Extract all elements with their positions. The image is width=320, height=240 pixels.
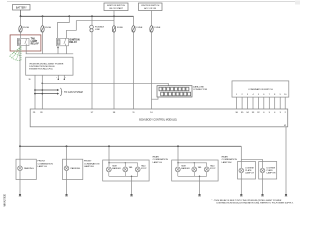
wire BCM ground (285, 127, 287, 194)
ground rear LH (130, 194, 133, 196)
fusible link FL (90, 16, 94, 32)
node bus-fuse2 (42, 15, 44, 17)
wire ign switch2 drop (151, 11, 153, 26)
wire ign switch1 drop (113, 11, 115, 26)
node CAN-L branch (34, 93, 36, 95)
svg-text:LAMP LH: LAMP LH (38, 165, 48, 168)
svg-text:BATTERY: BATTERY (16, 6, 27, 9)
svg-text:REAR: REAR (222, 156, 228, 159)
svg-text:LAMP RH: LAMP RH (84, 165, 94, 168)
wire CAN-H vertical (34, 75, 36, 109)
wire CAN-H arrow (35, 89, 59, 91)
wire bus to ignition relay feed (58, 16, 70, 38)
wire license RH drop (262, 159, 264, 168)
svg-text:ON OR START: ON OR START (109, 7, 124, 10)
wire fuse3 to BCM (113, 31, 115, 109)
node bus-fuse1 (20, 15, 22, 17)
ground rear RH (198, 194, 201, 196)
svg-text:IGNITION SWITCH: IGNITION SWITCH (107, 5, 126, 7)
rear combination lamp LH (103, 146, 169, 194)
ignition switch ON/START box (104, 3, 128, 11)
svg-text:FUSE: FUSE (117, 27, 123, 29)
wire fusible link to BCM (91, 32, 93, 110)
svg-text:COMBINATION: COMBINATION (38, 162, 54, 165)
node CAN-H branch (34, 89, 36, 91)
svg-text:COMBINATION: COMBINATION (84, 162, 100, 165)
svg-text:PARKING: PARKING (24, 167, 34, 170)
svg-text:* : THIS RELAY IS BUILT INTO T: * : THIS RELAY IS BUILT INTO THE IPDM E/… (212, 199, 282, 202)
node lamp bus rear RH (177, 145, 179, 147)
svg-text:CONNECTOR: CONNECTOR (193, 89, 207, 91)
svg-text:TO CAN SYSTEM: TO CAN SYSTEM (64, 91, 83, 94)
node lamp bus front LH (19, 145, 21, 147)
node bus-fusible-link (91, 15, 93, 17)
svg-text:RELAY: RELAY (69, 41, 77, 44)
svg-text:LAMP LH: LAMP LH (153, 161, 163, 164)
ignition relay stub pin (57, 46, 59, 54)
page top border (7, 1, 295, 3)
wire CAN-L arrow (35, 93, 59, 95)
ignition relay (57, 38, 69, 46)
wire DLC lower feed (152, 97, 159, 99)
front combination lamp LH (16, 146, 53, 194)
IPDM E/R label box (26, 54, 73, 75)
svg-text:DISTRIBUTION MODULE: DISTRIBUTION MODULE (29, 66, 55, 68)
svg-text:COMBINATION: COMBINATION (222, 158, 238, 161)
wire fuse2 down to IPDM (42, 31, 44, 54)
svg-text:39: 39 (29, 79, 31, 81)
svg-text:IGNITION SWITCH: IGNITION SWITCH (141, 5, 160, 7)
svg-text:LAMP RH: LAMP RH (222, 161, 232, 164)
wires combination switch to BCM (237, 97, 286, 109)
corner smudge (295, 1, 300, 5)
highlight box (red) around tail lamp relay (10, 35, 41, 51)
fuse F1 (19, 16, 22, 32)
svg-text:IPDM E/R (INTELLIGENT POWER: IPDM E/R (INTELLIGENT POWER (29, 63, 63, 65)
wire fuse4 to BCM (133, 31, 135, 109)
ground license LH (240, 194, 243, 196)
license plate lamp LH (238, 162, 256, 195)
tail lamp relay (17, 38, 29, 45)
node lamp bus rear LH (108, 145, 110, 147)
svg-text:FUSE: FUSE (137, 27, 143, 29)
ignition switch ACC/ON box (139, 3, 163, 11)
svg-text:RELAY*: RELAY* (31, 43, 40, 46)
svg-text:FUSE: FUSE (155, 27, 161, 29)
node bus-ignrelay (68, 15, 70, 17)
svg-text:WKIA2762E: WKIA2762E (4, 194, 7, 207)
wire license LH drop (240, 159, 242, 168)
svg-text:BCM (BODY CONTROL MODULE): BCM (BODY CONTROL MODULE) (139, 118, 177, 121)
wire lamp feed bus (20, 145, 241, 147)
svg-text:LAMP LH: LAMP LH (245, 171, 254, 174)
node lamp bus front RH (66, 145, 68, 147)
BCM body control module (30, 109, 288, 127)
wire battery drop (20, 10, 22, 16)
wire CAN-L vertical (41, 75, 43, 109)
svg-text:PARKING: PARKING (71, 167, 81, 170)
data link connector DLC (157, 85, 207, 97)
combination switch (232, 81, 289, 97)
svg-text:ACC OR ON: ACC OR ON (144, 7, 156, 10)
wire bus corner to fuse4 (133, 16, 135, 25)
wire fuse1 to relay (20, 31, 22, 38)
svg-text:DISTRIBUTION MODULE ENGINE ROO: DISTRIBUTION MODULE ENGINE ROOM). REFER … (217, 203, 294, 205)
svg-text:COMBINATION: COMBINATION (153, 158, 169, 161)
svg-text:MARKER: MARKER (112, 167, 121, 170)
wire relay coil pin to IPDM (25, 46, 27, 54)
svg-text:COMBINATION SWITCH: COMBINATION SWITCH (248, 88, 273, 91)
ground BCM (285, 194, 288, 196)
ground front RH (65, 194, 68, 196)
svg-text:REAR: REAR (153, 156, 159, 159)
svg-text:LINK: LINK (95, 29, 100, 31)
green view cone (10, 47, 22, 61)
svg-text:STOP: STOP (141, 168, 147, 170)
wire relay output to lamp bus (long left vertical) (19, 46, 21, 147)
wire fuse5 to BCM (151, 31, 153, 109)
rear combination lamp RH (172, 146, 238, 194)
wire diagnosis line IPDM to DLC (42, 83, 168, 85)
wire main battery bus (21, 15, 134, 17)
wire ignition relay output to IPDM (66, 46, 68, 54)
wire ign1 branch to ignition relay (67, 21, 115, 39)
wire license feed (241, 146, 262, 159)
svg-text:FUSE: FUSE (23, 27, 29, 29)
fuse F4 (132, 26, 135, 33)
svg-text:FUSE: FUSE (45, 27, 51, 29)
svg-text:STOP: STOP (210, 168, 216, 170)
svg-text:DATA LINK: DATA LINK (193, 85, 204, 88)
fuse F3 (112, 26, 115, 33)
node bus-ign1 (113, 15, 115, 17)
node diag branch (42, 83, 44, 85)
IPDM pin stub B (64, 75, 67, 80)
front combination lamp RH (63, 146, 100, 194)
svg-text:LAMP RH: LAMP RH (267, 171, 276, 174)
ground front LH (19, 194, 22, 196)
fuse F5 (150, 26, 153, 33)
svg-text:MARKER: MARKER (181, 167, 190, 170)
license plate lamp RH (259, 162, 277, 195)
ground license RH (261, 194, 264, 196)
battery B1 (13, 5, 31, 11)
CAN brace and label (60, 88, 83, 96)
footnote (212, 199, 294, 205)
IPDM pin stub A (56, 75, 59, 80)
fuse F2 (41, 16, 44, 32)
svg-text:ENGINE ROOM) (CPU): ENGINE ROOM) (CPU) (29, 69, 52, 71)
